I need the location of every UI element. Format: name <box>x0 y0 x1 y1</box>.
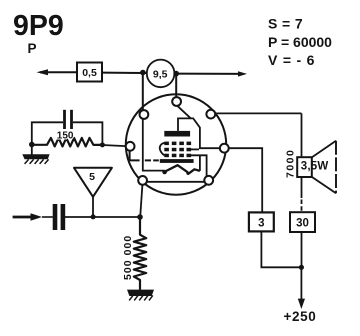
wire box30 down to supply <box>301 232 303 267</box>
wire meter to right arrow <box>175 73 243 75</box>
heater mid dot <box>186 172 189 175</box>
wire down to speaker transformer <box>301 113 303 157</box>
wire box3 down to supply <box>261 231 301 267</box>
svg-text:+250: +250 <box>284 309 317 324</box>
meter 9,5 <box>147 60 175 88</box>
svg-text:150: 150 <box>57 131 74 142</box>
triangle 5 (input terminal) <box>74 168 112 197</box>
wire bottom-left pin down to grid junction <box>140 185 142 217</box>
pin right <box>220 144 229 153</box>
wire top-right pin to transformer <box>215 112 301 114</box>
wire speaker to box 30 <box>301 177 303 198</box>
resistor box 0,5 <box>77 63 102 82</box>
wire top-left with arrow <box>40 71 77 73</box>
anode lead <box>178 118 220 148</box>
svg-text:3,5W: 3,5W <box>301 161 329 173</box>
coupling capacitor <box>53 204 65 230</box>
bottom pins link <box>143 181 209 183</box>
heater filament <box>164 165 200 174</box>
junction dot right of meter <box>173 71 179 77</box>
svg-text:5: 5 <box>89 171 95 183</box>
svg-text:7000: 7000 <box>285 149 297 178</box>
junction dot left of meter <box>140 70 146 76</box>
junction dot triangle <box>91 214 96 219</box>
junction dot grid leak <box>137 214 143 220</box>
grid row2 stub <box>191 148 200 150</box>
svg-text:V = - 6: V = - 6 <box>268 52 315 68</box>
junction dot supply <box>299 265 304 270</box>
grid lead to bottom-right pin <box>189 155 207 176</box>
grid dots rows <box>164 142 191 158</box>
wire supply arrow <box>300 267 302 299</box>
grid bracket <box>160 143 165 155</box>
wire arrow to coupling cap <box>42 216 53 218</box>
tube internals <box>143 106 220 182</box>
ground (left, cathode) <box>22 145 49 164</box>
svg-text:9P9: 9P9 <box>13 10 64 42</box>
cathode bar <box>160 159 194 163</box>
svg-text:30: 30 <box>296 218 309 230</box>
svg-text:500 000: 500 000 <box>122 235 134 280</box>
ground (grid leak) <box>127 290 154 301</box>
svg-text:0,5: 0,5 <box>82 67 97 79</box>
wire meter left drop to top-left pin <box>142 72 144 110</box>
anode plate bar <box>164 131 190 137</box>
resistor box 3 <box>249 212 274 231</box>
cathode lead dashes from left pin <box>130 151 159 161</box>
junction dot ground <box>29 142 35 148</box>
resistor 500000 zigzag vertical <box>134 217 146 290</box>
resistor 150 zigzag <box>33 138 102 147</box>
pin bottom-left <box>138 176 147 185</box>
heater right lead <box>199 156 201 171</box>
wire cap to grid junction <box>65 216 140 218</box>
arrowhead right <box>238 71 247 76</box>
input arrow <box>13 216 33 219</box>
svg-text:P: P <box>28 41 37 56</box>
pin top-left <box>140 110 149 119</box>
svg-text:P = 60000: P = 60000 <box>268 34 332 50</box>
loudspeaker 3,5W <box>297 141 336 193</box>
resistor box 30 <box>290 212 315 232</box>
tube envelope <box>126 94 226 194</box>
pin left <box>126 142 135 151</box>
junction dot cap right <box>100 142 105 147</box>
anode lead diagonal from top pin <box>177 106 190 119</box>
svg-text:9,5: 9,5 <box>153 68 168 80</box>
wire meter right drop to top pin <box>175 74 177 98</box>
capacitor branch over 150 resistor <box>32 122 103 145</box>
wire cathode network to left pin <box>102 145 126 146</box>
svg-text:3: 3 <box>258 218 264 230</box>
heater left dot <box>162 170 167 175</box>
wire right pin to screen resistor <box>229 148 263 212</box>
pin top-right <box>206 110 215 119</box>
capacitor C plates (bypass) <box>63 110 73 129</box>
svg-text:S = 7: S = 7 <box>268 16 303 32</box>
wire triangle apex down <box>92 197 94 217</box>
heater lead from top-left pin <box>143 119 164 171</box>
arrowhead left <box>37 69 49 75</box>
pin bottom-right <box>204 176 213 185</box>
wire box to meter <box>102 72 147 74</box>
pin top <box>172 97 181 106</box>
